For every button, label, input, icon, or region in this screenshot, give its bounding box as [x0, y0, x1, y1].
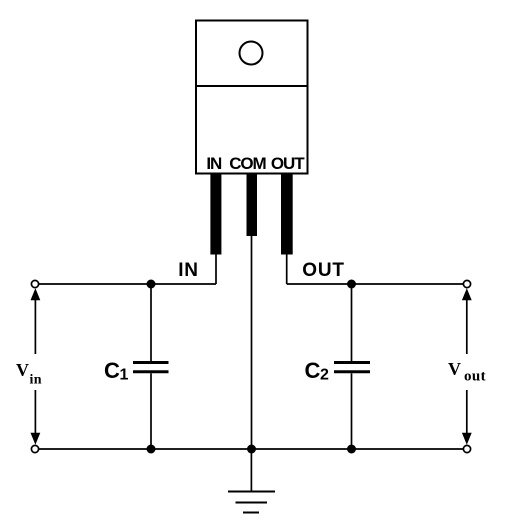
Vin measurement arrow (double-headed) — [31, 288, 41, 445]
terminal Vout- (open circle) — [463, 445, 470, 452]
regulator U1 body — [195, 21, 308, 174]
wire: bottom common bus — [39, 448, 463, 450]
svg-text:V: V — [448, 359, 461, 379]
ground — [228, 449, 275, 513]
junction: C1 bottom node — [147, 445, 156, 454]
svg-text:C: C — [104, 358, 120, 383]
Vout measurement arrow (double-headed) — [462, 288, 472, 445]
svg-text:COM: COM — [229, 154, 266, 173]
label Vin — [16, 360, 42, 387]
svg-text:out: out — [464, 369, 486, 385]
svg-text:OUT: OUT — [302, 260, 345, 281]
svg-text:OUT: OUT — [271, 154, 305, 173]
pin 3 OUT (thick lead) — [281, 174, 293, 255]
wire: COM vertical to ground bus — [251, 236, 253, 449]
pin 2 COM (thick lead) — [247, 174, 258, 236]
terminal Vout+ (open circle) — [463, 280, 470, 287]
capacitor C1 — [133, 284, 169, 449]
pin 1 IN (thick lead) — [210, 174, 221, 255]
svg-text:IN: IN — [178, 260, 199, 281]
label C1 — [104, 358, 129, 384]
junction: C1 top node — [147, 280, 156, 289]
svg-text:2: 2 — [320, 367, 329, 384]
wire: OUT pin drop — [286, 254, 288, 284]
terminal Vin- (open circle) — [31, 445, 38, 452]
svg-text:IN: IN — [206, 154, 222, 173]
svg-text:in: in — [30, 373, 42, 388]
wire: IN pin drop — [215, 254, 217, 284]
U1 mounting hole — [240, 42, 263, 65]
wire: top output bus — [287, 283, 463, 285]
label C2 — [305, 358, 330, 384]
svg-text:V: V — [16, 360, 29, 380]
svg-text:1: 1 — [120, 367, 129, 384]
label Vout — [448, 359, 486, 385]
junction: COM bottom node — [247, 445, 256, 454]
junction: C2 bottom node — [347, 445, 356, 454]
terminal Vin+ (open circle) — [31, 280, 38, 287]
wire: top input bus — [39, 283, 216, 285]
capacitor C2 — [334, 284, 370, 449]
svg-text:C: C — [305, 358, 321, 383]
junction: C2 top node — [347, 280, 356, 289]
